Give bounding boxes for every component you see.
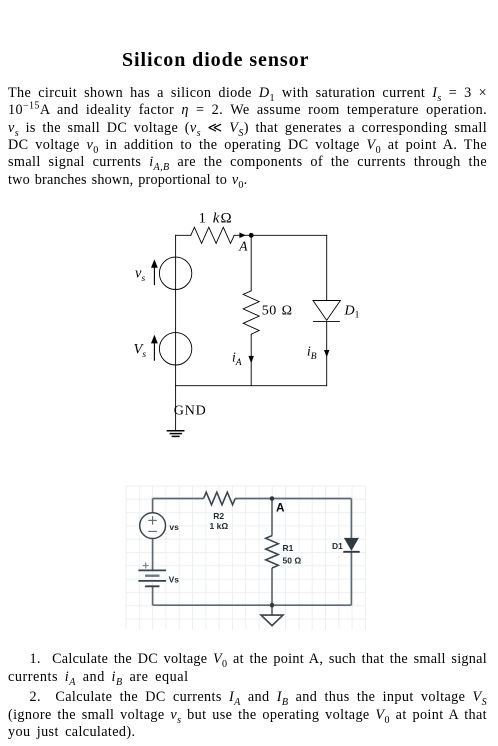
- svg-text:D1: D1: [332, 541, 343, 551]
- svg-text:R2: R2: [213, 511, 224, 521]
- wire ground stub: [271, 605, 273, 615]
- wire mid vertical lower: [271, 568, 273, 605]
- battery Vs: [138, 570, 166, 586]
- wire resistor to node A: [234, 234, 327, 236]
- list item 1 line 2: [8, 669, 487, 686]
- diode D1 cathode bar: [313, 321, 339, 323]
- node A dot: [249, 233, 254, 238]
- paragraph line 5: [8, 154, 487, 171]
- wire right vertical upper: [326, 235, 328, 300]
- wire top horizontal right of R2: [235, 498, 351, 500]
- resistor 50 zigzag vertical: [243, 291, 259, 334]
- current arrowhead into node A: [239, 233, 245, 239]
- wire middle vertical upper: [250, 235, 252, 290]
- ground bars: [167, 431, 183, 437]
- arrowhead iA: [248, 356, 254, 363]
- resistor 1k zigzag: [191, 227, 234, 243]
- grid background: [126, 486, 366, 630]
- wire left vertical: [175, 235, 177, 385]
- paragraph line 1: [8, 85, 487, 102]
- list item 2 line 3: [8, 724, 487, 741]
- list item 2 line 1: [8, 689, 487, 706]
- minus sign in vs: [148, 530, 157, 532]
- wire bottom horizontal: [153, 604, 352, 606]
- paragraph line 6: [8, 172, 487, 189]
- wire ground stem: [175, 386, 177, 431]
- source vs circle: [159, 257, 191, 289]
- arrowhead Vs source: [151, 335, 158, 344]
- svg-text:50 Ω: 50 Ω: [283, 555, 302, 565]
- svg-text:1 kΩ: 1 kΩ: [210, 521, 229, 531]
- wire left vertical to vs: [152, 499, 154, 513]
- source vs circle: [140, 513, 166, 539]
- svg-text:R1: R1: [283, 543, 294, 553]
- wire mid vertical upper: [271, 499, 273, 536]
- node A dot: [270, 496, 275, 501]
- paragraph line 4: [8, 137, 487, 154]
- wire battery to bottom: [152, 586, 154, 605]
- vs source arrow shaft: [153, 267, 155, 285]
- arrowhead iB: [324, 350, 329, 357]
- wire right vertical lower: [350, 552, 352, 605]
- svg-text:Vs: Vs: [169, 574, 180, 584]
- list item 2 line 2: [8, 707, 487, 724]
- wire right vertical upper: [350, 499, 352, 538]
- arrowhead vs source: [151, 259, 158, 268]
- wire middle vertical lower: [250, 334, 252, 386]
- title: [122, 49, 309, 72]
- battery plus sign: [143, 563, 149, 569]
- diode D1 triangle: [313, 301, 340, 321]
- resistor R2 zigzag: [204, 492, 236, 505]
- diode D1 filled: [344, 538, 359, 551]
- ground symbol: [261, 615, 283, 626]
- wire bottom horizontal: [176, 385, 327, 387]
- wire top horizontal left of R2: [153, 498, 204, 500]
- plus sign in vs: [148, 516, 157, 531]
- source Vs circle: [159, 333, 191, 365]
- list item 1 line 1: [8, 651, 487, 668]
- wire vs to battery: [152, 539, 154, 571]
- bottom node dot: [270, 603, 275, 608]
- diode D1 bar: [343, 551, 359, 553]
- wire right vertical lower: [326, 322, 328, 386]
- svg-text:vs: vs: [169, 522, 179, 532]
- resistor R1 zigzag: [266, 536, 279, 568]
- paragraph line 2: [8, 102, 487, 119]
- paragraph line 3: [8, 120, 487, 137]
- wire top-left horizontal: [176, 234, 191, 236]
- Vs source arrow shaft: [153, 342, 155, 360]
- svg-text:A: A: [276, 501, 285, 515]
